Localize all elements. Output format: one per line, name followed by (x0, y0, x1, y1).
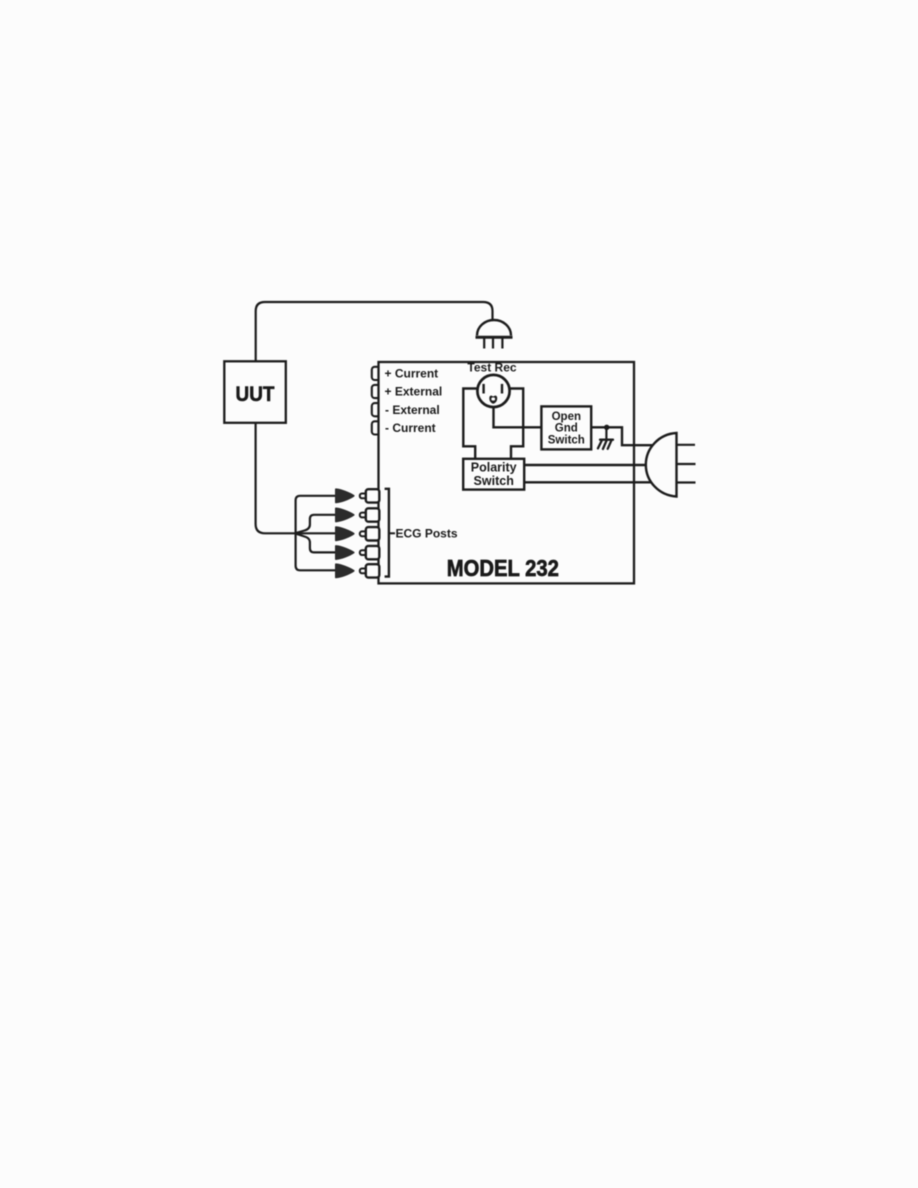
ECG fan wire 4 (295, 533, 337, 552)
ECG posts bracket (385, 489, 389, 577)
receptacle slot right (501, 384, 503, 394)
receptacle slot left (482, 384, 484, 394)
ECG post 3 (336, 527, 380, 540)
polarity switch output wires (524, 465, 655, 482)
ECG fan wire 1 (296, 496, 337, 534)
svg-text:+ External: + External (385, 385, 443, 399)
MODEL 232 enclosure box (379, 362, 635, 583)
svg-text:Open: Open (552, 411, 581, 423)
svg-text:UUT: UUT (236, 383, 275, 406)
svg-text:ECG Posts: ECG Posts (396, 527, 458, 541)
connector tab 1 (372, 367, 382, 380)
connector tab 2 (372, 385, 382, 398)
ECG post 5 (336, 564, 380, 577)
power plug prongs (678, 445, 696, 483)
svg-text:Test Rec: Test Rec (467, 361, 516, 375)
receptacle ground hole (489, 396, 497, 404)
wire receptacle bottom to open gnd switch (494, 407, 542, 428)
power plug body (646, 433, 677, 497)
svg-text:- Current: - Current (385, 421, 436, 435)
ground rake symbol (598, 440, 613, 449)
wire UUT top to test plug (256, 302, 493, 362)
junction dot (604, 425, 609, 430)
ECG fan wire 5 (296, 533, 337, 570)
wire UUT bottom to ECG junction (256, 423, 295, 533)
ECG fan wire 2 (295, 515, 337, 534)
svg-text:MODEL 232: MODEL 232 (447, 555, 559, 582)
polarity switch box (463, 459, 524, 490)
wire receptacle left to polarity switch (463, 389, 478, 460)
svg-text:- External: - External (385, 403, 440, 417)
svg-text:Gnd: Gnd (555, 423, 578, 435)
bracket label tick (389, 532, 395, 534)
ECG post 4 (336, 546, 380, 559)
ground stem (605, 427, 607, 439)
UUT box (224, 361, 285, 423)
receptacle Test Rec circle (477, 375, 509, 407)
svg-text:Switch: Switch (548, 435, 585, 447)
svg-text:Polarity: Polarity (471, 461, 517, 475)
test plug prongs (484, 339, 502, 349)
test plug body (477, 320, 511, 336)
connector tab 3 (372, 403, 382, 416)
ECG post 2 (336, 508, 380, 521)
svg-text:Switch: Switch (474, 474, 514, 488)
svg-text:+ Current: + Current (385, 367, 439, 381)
wire open gnd switch to plug jog (591, 427, 656, 445)
ECG fan wire 3 (295, 532, 337, 534)
wire receptacle right to polarity switch (509, 389, 524, 460)
connector tab 4 (372, 421, 382, 434)
test plug base bar (476, 336, 513, 339)
ECG post 1 (336, 489, 380, 502)
open gnd switch box (541, 406, 591, 449)
